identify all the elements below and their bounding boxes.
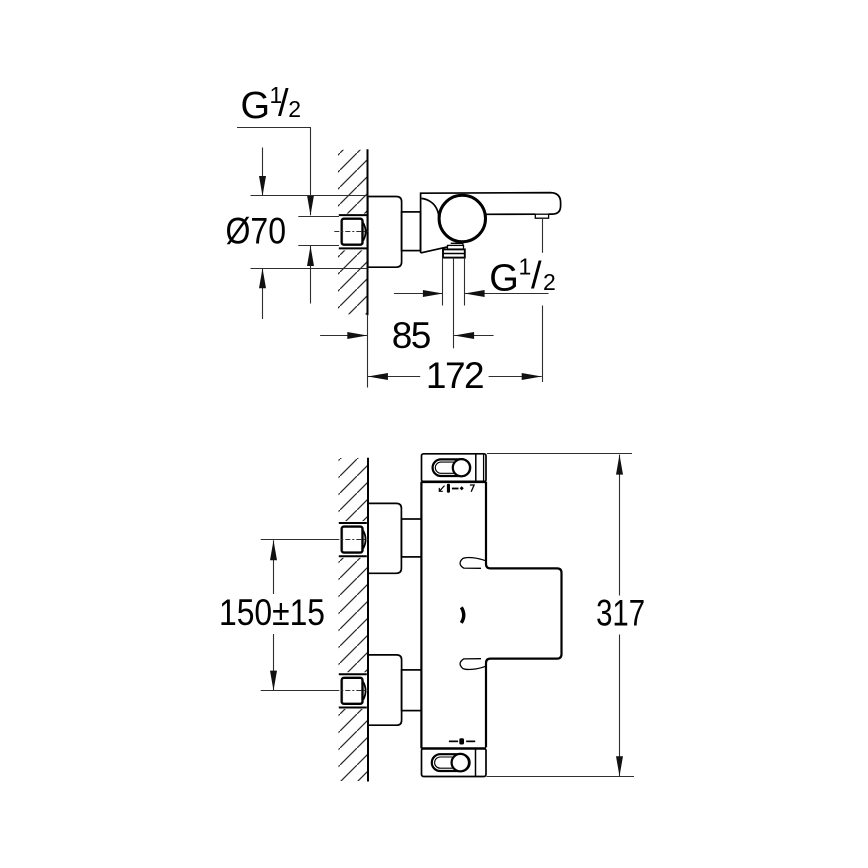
wall hatching (bottom wall) bbox=[339, 458, 369, 781]
svg-text:Ø70: Ø70 bbox=[226, 210, 287, 251]
dimension 317 bbox=[487, 453, 632, 455]
wall face extension line below wall bbox=[367, 315, 369, 387]
spout outlet extension line (x=542) bbox=[542, 219, 544, 253]
grip curl bottom bbox=[460, 659, 485, 670]
mixer body outline bbox=[421, 193, 561, 253]
svg-text:G: G bbox=[489, 258, 519, 300]
body inner contour curve bbox=[422, 198, 439, 216]
cap bottom bold line bbox=[421, 480, 486, 483]
Ø70 dimension stems and arrows bbox=[262, 148, 264, 197]
thermostat body top cap bbox=[422, 454, 487, 482]
svg-text:2: 2 bbox=[543, 269, 556, 295]
svg-text:2: 2 bbox=[288, 96, 301, 122]
dimension 150±15 bbox=[261, 539, 336, 541]
bottom cap box bbox=[422, 749, 487, 777]
outlet pipe edges (G1/2 extension lines) bbox=[442, 258, 444, 306]
bottom cap bold top line bbox=[421, 747, 486, 750]
wall hatching (top wall) bbox=[338, 150, 368, 314]
dimension 85 bbox=[320, 335, 367, 337]
svg-text:/: / bbox=[531, 255, 542, 297]
bottom cap divider bbox=[475, 749, 477, 777]
svg-text:85: 85 bbox=[392, 315, 431, 356]
top knob capsule inner bbox=[435, 462, 467, 473]
temperature icon row bbox=[439, 484, 474, 493]
upper flange bbox=[368, 503, 401, 573]
washer arc bbox=[363, 223, 365, 241]
nut face line bbox=[342, 220, 344, 243]
svg-text:1: 1 bbox=[519, 254, 532, 280]
dimension 172 bbox=[368, 376, 420, 378]
svg-text:G: G bbox=[241, 85, 271, 127]
lower flange bbox=[368, 655, 402, 725]
upper connector pipe bbox=[401, 519, 421, 557]
mixer icon above bottom cap bbox=[449, 738, 475, 744]
lower stem of square dim bbox=[310, 246, 312, 304]
wall face line (bottom wall) bbox=[367, 458, 369, 782]
wall face line (top wall) bbox=[367, 149, 369, 315]
spout outlet tick bbox=[535, 214, 548, 218]
centerline dash-dot bbox=[334, 231, 368, 233]
dimension G1/2 at shower outlet bbox=[394, 293, 443, 295]
union square fitting (top wall) bbox=[334, 215, 368, 248]
flange Ø70 extension lines bbox=[251, 195, 368, 197]
white halos behind union squares bbox=[335, 521, 368, 558]
union square fitting (lower, bottom wall) bbox=[334, 674, 368, 707]
connector between flange and body bbox=[402, 212, 421, 251]
bottom knob capsule outer bbox=[432, 754, 470, 771]
bottom knob circle bbox=[452, 754, 469, 771]
dimension: G1/2 top label leader bbox=[237, 127, 311, 129]
svg-text:172: 172 bbox=[426, 355, 483, 396]
shower outlet collar bbox=[448, 245, 464, 249]
svg-text:317: 317 bbox=[596, 593, 645, 634]
wall flange / escutcheon Ø70 bbox=[368, 197, 402, 268]
safestop button blob bbox=[461, 607, 463, 623]
top knob circle bbox=[453, 459, 470, 476]
shower outlet nut bbox=[443, 249, 465, 257]
thick seat lines bbox=[339, 214, 367, 216]
svg-text:150±15: 150±15 bbox=[219, 592, 325, 633]
outlet centerline bbox=[453, 258, 455, 349]
square nut bbox=[342, 219, 363, 245]
step under circle bbox=[451, 243, 463, 245]
cap divider bbox=[475, 454, 477, 482]
arrow down to square top bbox=[307, 195, 314, 215]
body left side bbox=[420, 482, 422, 749]
lower connector pipe bbox=[402, 670, 422, 711]
top knob capsule outer bbox=[433, 459, 471, 476]
nut mid line bbox=[443, 253, 465, 255]
wedge under body bbox=[421, 246, 450, 253]
body right side with knob protrusion bbox=[486, 482, 562, 748]
spout underside bbox=[487, 213, 536, 215]
cartridge dome circle bbox=[439, 195, 485, 241]
square extension lines bbox=[298, 216, 339, 218]
white halo behind union square (top) bbox=[335, 214, 368, 251]
bottom knob capsule inner bbox=[435, 757, 467, 768]
grip curl top bbox=[460, 558, 485, 569]
union square fitting (upper, bottom wall) bbox=[334, 523, 368, 556]
